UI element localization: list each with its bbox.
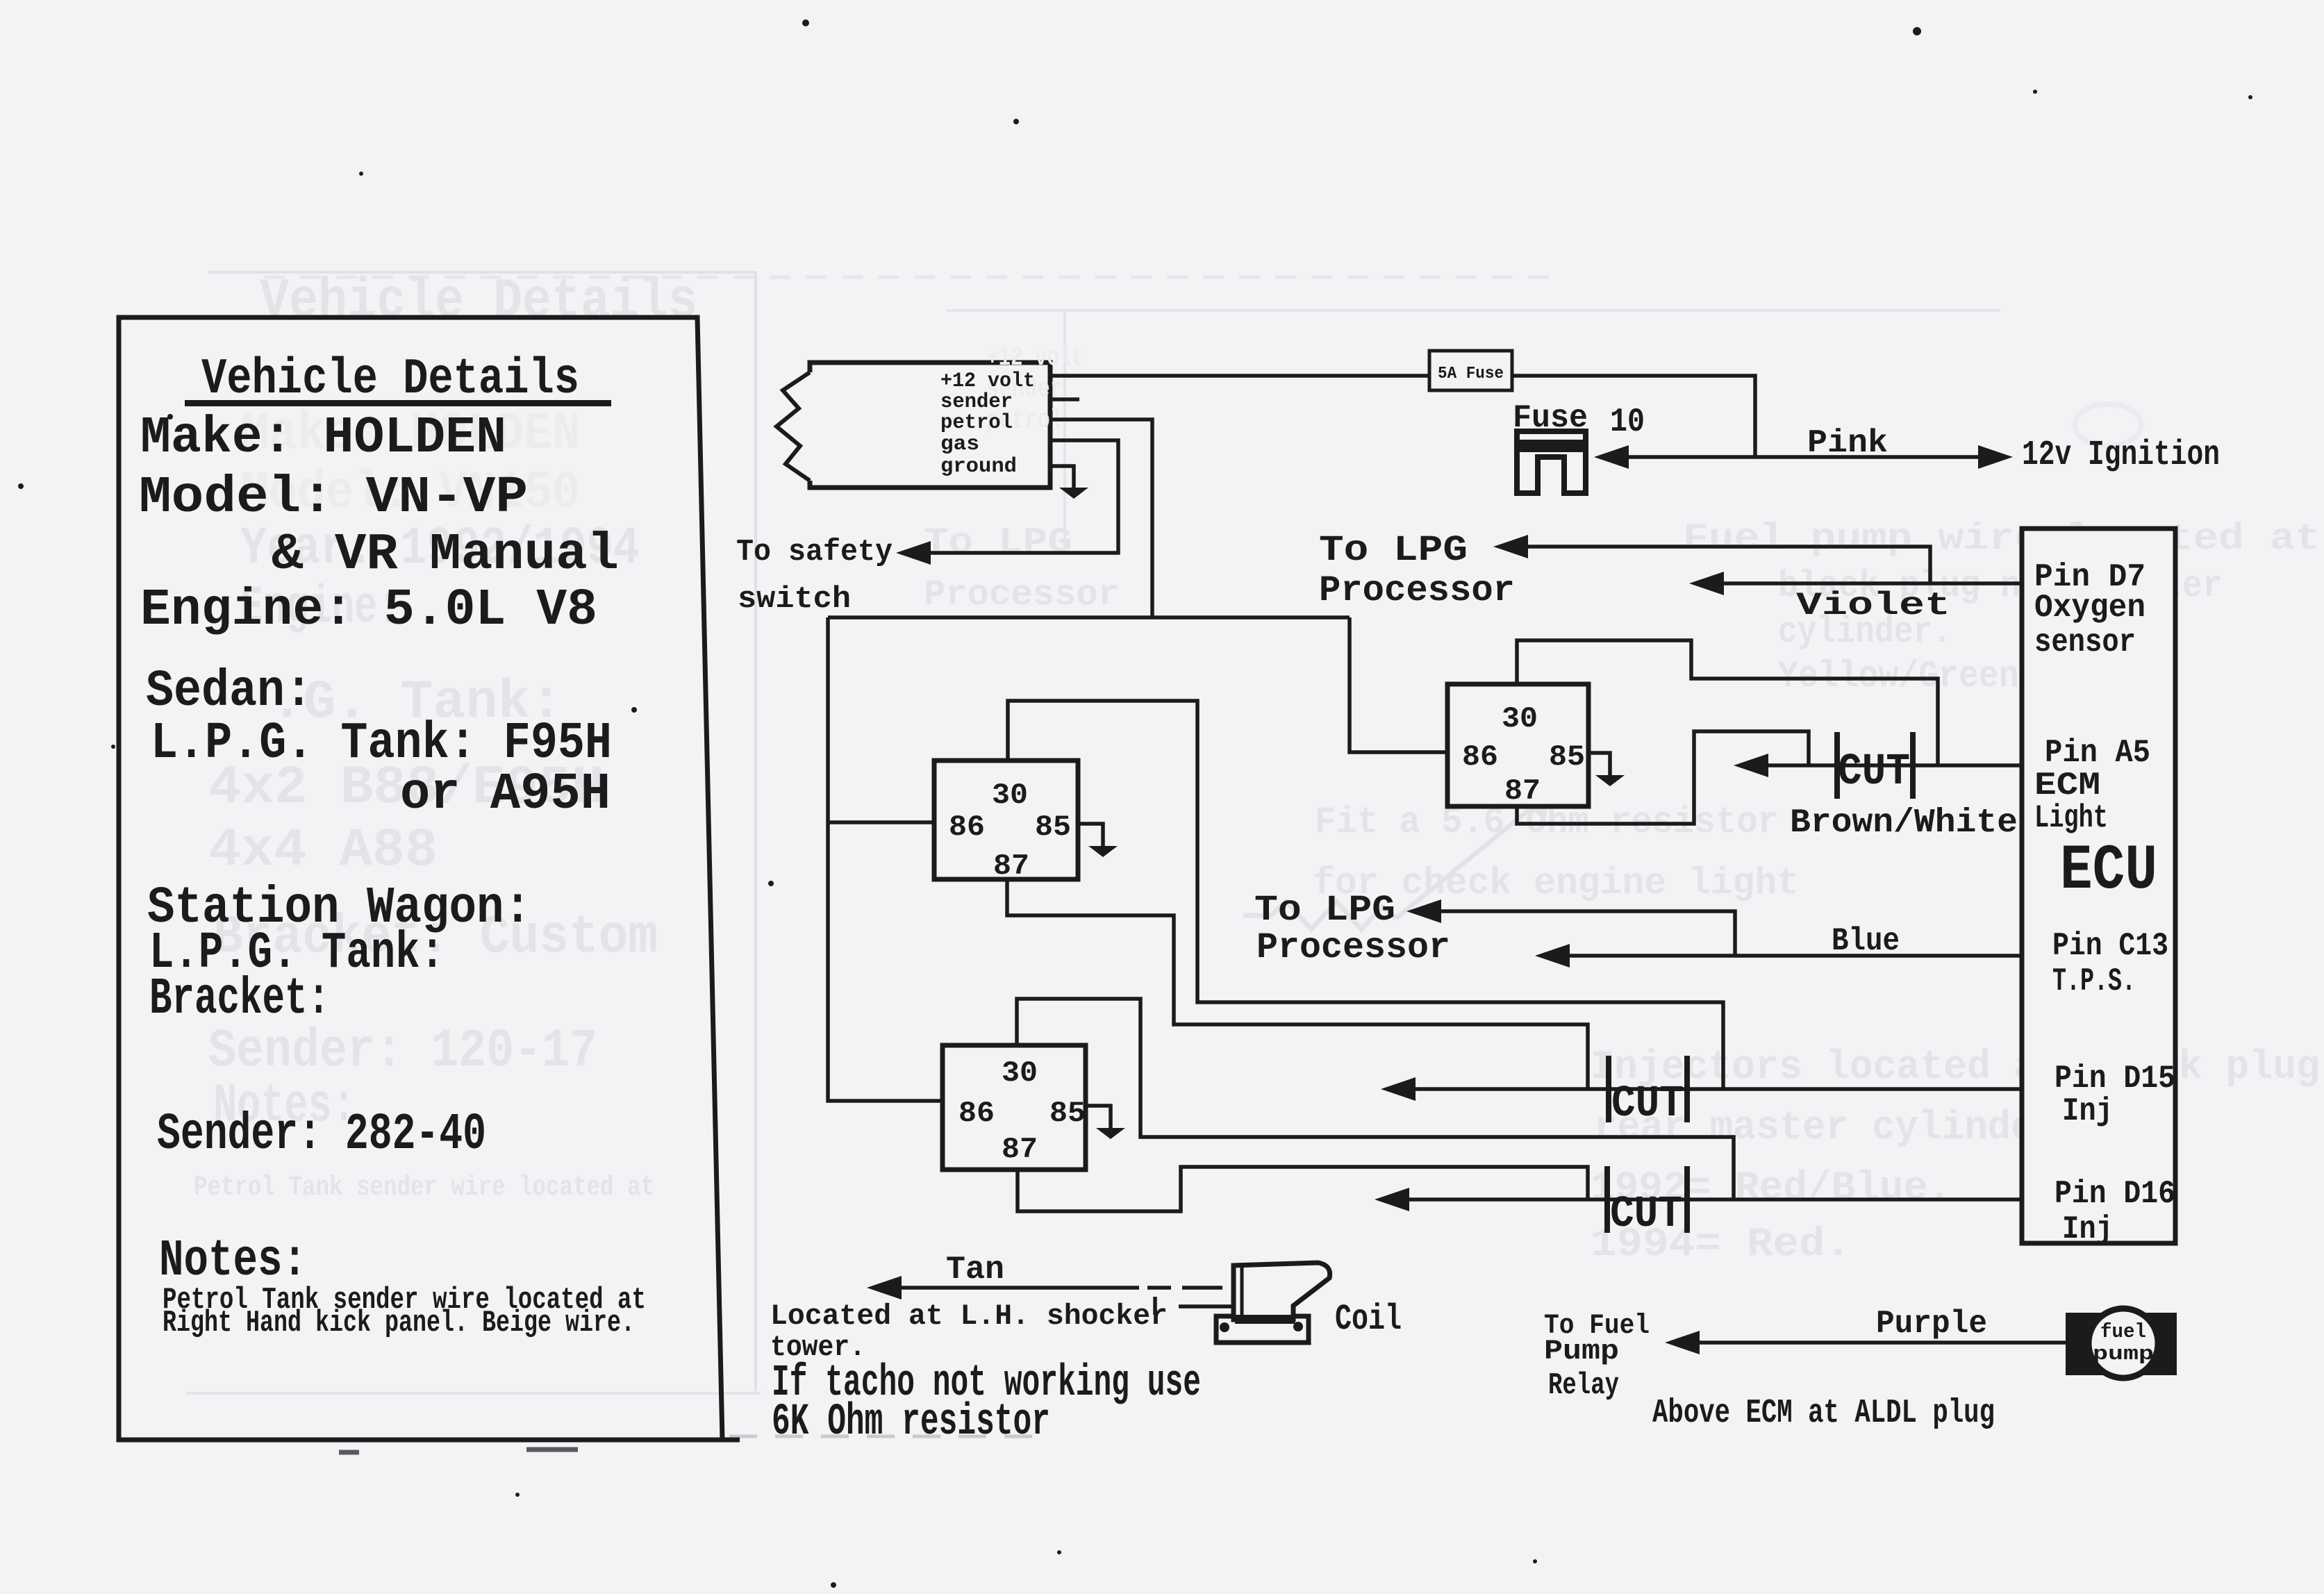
svg-text:Vehicle Details: Vehicle Details [201, 351, 579, 408]
svg-text:Tan: Tan [946, 1252, 1004, 1288]
svg-text:+12 volt: +12 volt [940, 370, 1035, 393]
ground relay K2 85 [1588, 753, 1610, 775]
svg-text:Brown/White: Brown/White [1790, 804, 2018, 842]
svg-text:Pin D16: Pin D16 [2055, 1176, 2175, 1212]
svg-text:T.P.S.: T.P.S. [2052, 963, 2136, 999]
svg-text:Above ECM at ALDL plug: Above ECM at ALDL plug [1652, 1395, 1995, 1432]
ghost vehicle-details box outline (bleed-through) [208, 272, 756, 1391]
svg-text:+12 volt: +12 volt [986, 343, 1084, 373]
wire relay K2 87 to ECM light harness side [1517, 731, 1809, 824]
svg-text:Sedan:: Sedan: [146, 663, 313, 721]
svg-text:Pin D15: Pin D15 [2055, 1061, 2175, 1097]
svg-text:87: 87 [1002, 1133, 1038, 1166]
wire relay K1 87 to D15 harness side [1007, 879, 1588, 1088]
svg-text:86: 86 [1462, 740, 1498, 774]
svg-text:To safety: To safety [736, 535, 893, 570]
svg-text:Model: VN-VP: Model: VN-VP [139, 469, 528, 527]
vehicle details box [119, 317, 740, 1440]
ghost dashed underline below 6K Ohm resistor [729, 1435, 1042, 1438]
svg-text:CUT: CUT [1838, 747, 1910, 797]
cut marks A5 [1837, 732, 1913, 799]
svg-text:petrol: petrol [940, 411, 1013, 435]
wire +12 volt to 5A fuse and down [1050, 376, 1755, 456]
ghost faint line above box bottom [186, 1392, 761, 1395]
ghost top wire of bleed diagram [947, 310, 2000, 549]
wire sender stub [1050, 397, 1079, 401]
title underline [185, 400, 611, 406]
svg-text:12v Ignition: 12v Ignition [2022, 435, 2220, 475]
svg-text:6K Ohm resistor: 6K Ohm resistor [772, 1397, 1050, 1447]
svg-text:Engine: 5.0L V8: Engine: 5.0L V8 [140, 581, 597, 640]
svg-text:gas: gas [940, 433, 979, 456]
svg-text:Light: Light [2034, 800, 2108, 836]
svg-text:87: 87 [1504, 774, 1541, 808]
svg-text:Petrol Tank sender wire locate: Petrol Tank sender wire located at [194, 1172, 654, 1204]
wire Tan to coil (dashed end) [874, 1286, 1222, 1290]
wire Purple fuel pump [1672, 1340, 2066, 1345]
svg-text:Processor: Processor [1256, 927, 1450, 968]
cut marks D15 [1609, 1056, 1687, 1122]
wire left rail down to relay K3 [828, 617, 943, 1101]
svg-text:Processor: Processor [924, 574, 1120, 615]
svg-text:Sender: 282-40: Sender: 282-40 [157, 1106, 486, 1164]
svg-text:Pink: Pink [1807, 425, 1888, 461]
svg-text:Violet: Violet [1796, 588, 1950, 624]
svg-text:CUT: CUT [1610, 1190, 1682, 1240]
svg-text:Coil: Coil [1335, 1299, 1402, 1340]
svg-text:Pin C13: Pin C13 [2052, 928, 2168, 964]
cut marks D16 [1607, 1166, 1687, 1233]
wire petrol feed (down to relay rail) [1050, 420, 1152, 617]
coil lower stub wire [1155, 1297, 1235, 1315]
svg-text:10: 10 [1610, 404, 1645, 441]
svg-text:Pin A5: Pin A5 [2045, 735, 2150, 771]
svg-text:Located at L.H. shocker: Located at L.H. shocker [770, 1300, 1168, 1333]
sender unit (petrol tank sender) [777, 363, 1050, 488]
relay K2 [1447, 684, 1588, 806]
ECU box [2022, 529, 2175, 1243]
ghost page-top edge (bleed-through) [264, 276, 1556, 279]
svg-text:Blue: Blue [1832, 923, 1900, 959]
ghost blob near 12v ignition [2075, 404, 2141, 446]
svg-text:85: 85 [1049, 1097, 1086, 1130]
wire relay K2 30 to ECM light ECU side [1517, 640, 1938, 764]
wire Blue from ECU pin C13 [1542, 954, 2022, 958]
svg-text:Relay: Relay [1548, 1368, 1619, 1403]
svg-text:86: 86 [949, 811, 985, 844]
wire relay K3 30 to D16 ECU side [1017, 999, 1734, 1198]
svg-text:30: 30 [1502, 702, 1538, 736]
svg-text:pump: pump [2093, 1343, 2154, 1365]
svg-text:switch: switch [738, 582, 851, 617]
wire right riser to relay K2 pin 86 [1350, 617, 1447, 752]
svg-text:Pump: Pump [1544, 1336, 1619, 1368]
fuse F2 blade icon [1517, 431, 1586, 493]
node distribution rail top [828, 615, 1350, 620]
relay K3 [943, 1045, 1086, 1170]
svg-text:or A95H: or A95H [400, 765, 611, 824]
svg-text:30: 30 [1002, 1056, 1038, 1090]
wire to LPG processor (oxygen) [1500, 547, 1930, 583]
svg-text:To LPG: To LPG [1319, 530, 1468, 571]
svg-text:Processor: Processor [1319, 570, 1515, 611]
svg-text:Sender: 120-17: Sender: 120-17 [208, 1021, 597, 1082]
fuel pump icon [2066, 1309, 2177, 1378]
wire Pin D16 injector with cut [1381, 1197, 2022, 1202]
wire gas to safety switch [903, 440, 1118, 553]
svg-text:5A Fuse: 5A Fuse [1438, 365, 1504, 383]
svg-text:Right Hand kick panel. Beige w: Right Hand kick panel. Beige wire. [163, 1306, 635, 1340]
ground relay K3 85 [1086, 1106, 1111, 1128]
ghost resistor symbol [1243, 793, 1549, 929]
svg-text:Notes:: Notes: [159, 1232, 307, 1290]
svg-text:Make: HOLDEN: Make: HOLDEN [140, 409, 506, 467]
svg-text:To LPG: To LPG [924, 522, 1072, 563]
svg-text:86: 86 [958, 1097, 995, 1130]
svg-text:Oxygen: Oxygen [2034, 590, 2145, 626]
svg-text:Purple: Purple [1876, 1306, 1987, 1342]
relay K1 [934, 761, 1078, 879]
wire relay K1 30 to D15 ECU side [1008, 701, 1723, 1088]
svg-text:L.P.G. Tank: F95H: L.P.G. Tank: F95H [151, 715, 612, 773]
svg-text:Fuse: Fuse [1513, 400, 1588, 436]
svg-text:ground: ground [940, 455, 1017, 479]
svg-text:85: 85 [1549, 740, 1585, 774]
svg-text:Injectors located at black plu: Injectors located at black plug [1591, 1045, 2320, 1090]
wire Pin A5 ECM light with cut [1741, 763, 2022, 767]
ground of sender [1050, 466, 1074, 488]
svg-text:ECU: ECU [2060, 834, 2157, 907]
svg-text:87: 87 [993, 849, 1029, 883]
svg-text:sensor: sensor [2034, 624, 2136, 661]
svg-text:To LPG: To LPG [1254, 890, 1395, 931]
svg-text:4x4 A88: 4x4 A88 [208, 820, 438, 881]
svg-text:sender: sender [940, 390, 1013, 414]
wire Pink to 12v ignition [1601, 455, 2006, 459]
svg-text:Inj: Inj [2062, 1093, 2113, 1129]
svg-text:Vehicle Details: Vehicle Details [260, 270, 697, 333]
svg-text:Inj: Inj [2062, 1211, 2113, 1247]
ground relay K1 85 [1078, 824, 1103, 846]
wire to LPG processor (TPS) [1413, 911, 1735, 956]
wire tap to relay K1 pin 86 [828, 820, 934, 824]
svg-text:fuel: fuel [2100, 1320, 2146, 1343]
svg-text:Bracket:: Bracket: [149, 970, 330, 1029]
svg-text:Fuel pump wire located at: Fuel pump wire located at [1683, 518, 2321, 561]
svg-text:85: 85 [1035, 811, 1071, 844]
svg-text:& VR Manual: & VR Manual [272, 526, 619, 584]
svg-text:CUT: CUT [1611, 1079, 1684, 1129]
svg-text:30: 30 [992, 779, 1028, 812]
wire Pin D15 injector with cut [1388, 1087, 2022, 1091]
wire relay K3 87 to D16 harness side [1018, 1167, 1588, 1211]
ghost dashes below box [339, 1450, 578, 1452]
coil icon [1216, 1263, 1330, 1343]
svg-text:ECM: ECM [2034, 767, 2100, 804]
fuse F1 5A box [1429, 351, 1512, 390]
wire Violet from ECU pin D7 [1696, 581, 2022, 586]
